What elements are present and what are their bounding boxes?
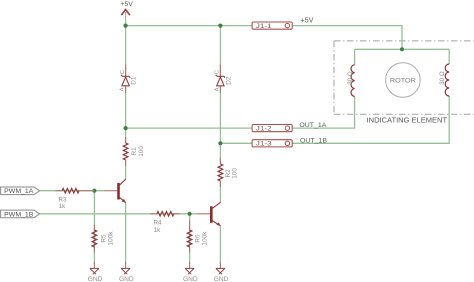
connector pin J1-1 xyxy=(252,22,292,30)
junction node R3/R5 xyxy=(92,189,96,193)
wire OUT_1A left segment to J1-2 xyxy=(126,127,253,129)
svg-text:A: A xyxy=(214,87,220,91)
svg-text:J1-1: J1-1 xyxy=(256,23,272,30)
svg-text:A: A xyxy=(120,87,126,91)
wire indicator top horizontal xyxy=(355,48,450,50)
junction node +5V column A xyxy=(124,24,128,28)
transistor Q2 xyxy=(197,202,221,226)
wire column B vertical (top rail through D2 to R2) xyxy=(219,26,221,165)
wire +5V top rail xyxy=(126,25,253,27)
wire right coil bottom to J1-3 (OUT_1B) xyxy=(292,96,449,143)
wire left coil top stub xyxy=(354,49,356,64)
svg-text:30 Ω: 30 Ω xyxy=(439,71,446,85)
hierarchical label PWM_1B xyxy=(1,210,40,218)
wire R2 bottom to Q2 collector xyxy=(219,181,221,203)
wire J1-1 to indicator drop xyxy=(292,26,402,50)
resistor R5 xyxy=(92,225,115,253)
svg-text:GND: GND xyxy=(88,276,103,282)
svg-text:R6: R6 xyxy=(194,234,201,243)
wire right coil top stub xyxy=(448,49,450,64)
svg-text:100: 100 xyxy=(231,168,238,179)
indicating element dashed box top edge xyxy=(334,40,474,42)
junction node OUT_1B column B xyxy=(218,141,222,145)
svg-text:1k: 1k xyxy=(154,227,161,234)
wire PWM_1B to Q2 base xyxy=(40,213,197,215)
inductor coil right 30ohm xyxy=(439,64,449,96)
svg-text:+5V: +5V xyxy=(121,1,134,8)
diode D1 xyxy=(120,65,138,94)
svg-text:C: C xyxy=(120,70,126,74)
svg-text:+5V: +5V xyxy=(300,15,313,24)
svg-text:INDICATING ELEMENT: INDICATING ELEMENT xyxy=(367,115,448,124)
wire OUT_1B segment J1-3 to column B xyxy=(220,142,252,144)
hierarchical label PWM_1A xyxy=(1,187,40,195)
wire left coil bottom to J1-2 (OUT_1A) xyxy=(292,97,354,129)
wire column A vertical (through D1 to R1) xyxy=(125,21,127,144)
junction node indicator top xyxy=(400,47,404,51)
junction node R4/R6 xyxy=(188,212,192,216)
svg-text:GND: GND xyxy=(214,276,229,282)
svg-text:PWM_1A: PWM_1A xyxy=(4,188,34,195)
svg-text:GND: GND xyxy=(183,276,198,282)
svg-text:100: 100 xyxy=(138,146,145,157)
wire R4 junction down to R6 xyxy=(189,214,191,264)
wire Q2 emitter to GND xyxy=(219,226,221,264)
svg-text:J1-3: J1-3 xyxy=(256,141,272,148)
resistor R6 xyxy=(187,221,208,253)
svg-text:OUT_1A: OUT_1A xyxy=(299,122,326,129)
svg-text:GND: GND xyxy=(119,276,134,282)
resistor R3 xyxy=(56,188,95,210)
wire R1 bottom to Q1 collector xyxy=(125,160,127,179)
svg-text:OUT_1B: OUT_1B xyxy=(300,138,327,145)
junction node column B top xyxy=(218,24,222,28)
wire PWM_1A to Q1 base xyxy=(40,190,104,192)
resistor R4 xyxy=(150,211,180,233)
svg-text:R5: R5 xyxy=(100,234,107,243)
wire Q1 emitter to GND xyxy=(125,202,127,264)
svg-text:30 Ω: 30 Ω xyxy=(347,71,354,85)
indicating element dashed box left edge xyxy=(333,41,335,114)
ground symbol GND (Q2 emitter) xyxy=(214,262,229,282)
svg-text:R4: R4 xyxy=(154,220,162,227)
svg-text:100k: 100k xyxy=(108,231,115,246)
transistor Q1 xyxy=(104,179,126,203)
svg-text:PWM_1B: PWM_1B xyxy=(4,211,33,218)
svg-text:J1-2: J1-2 xyxy=(256,126,272,133)
connector pin J1-2 xyxy=(252,125,292,133)
indicating element dashed box bottom edge xyxy=(334,113,474,115)
resistor R2 xyxy=(218,158,238,187)
ground symbol GND (Q1 emitter) xyxy=(119,262,134,282)
resistor R1 xyxy=(123,137,145,166)
svg-text:100k: 100k xyxy=(202,231,209,246)
svg-text:ROTOR: ROTOR xyxy=(390,78,416,85)
svg-text:C: C xyxy=(215,70,221,74)
inductor coil left 30ohm xyxy=(347,65,355,97)
connector pin J1-3 xyxy=(252,140,292,148)
svg-text:1k: 1k xyxy=(59,203,66,210)
ground symbol GND (R6) xyxy=(183,262,198,282)
diode D2 xyxy=(214,65,232,94)
svg-text:D2: D2 xyxy=(226,76,233,85)
power symbol +5V xyxy=(121,1,134,20)
rotor circle xyxy=(386,63,421,98)
wire R3 junction down to R5 xyxy=(93,191,95,264)
junction node OUT_1A column A xyxy=(124,126,128,130)
ground symbol GND (R5) xyxy=(88,262,103,282)
svg-text:D1: D1 xyxy=(131,76,138,85)
